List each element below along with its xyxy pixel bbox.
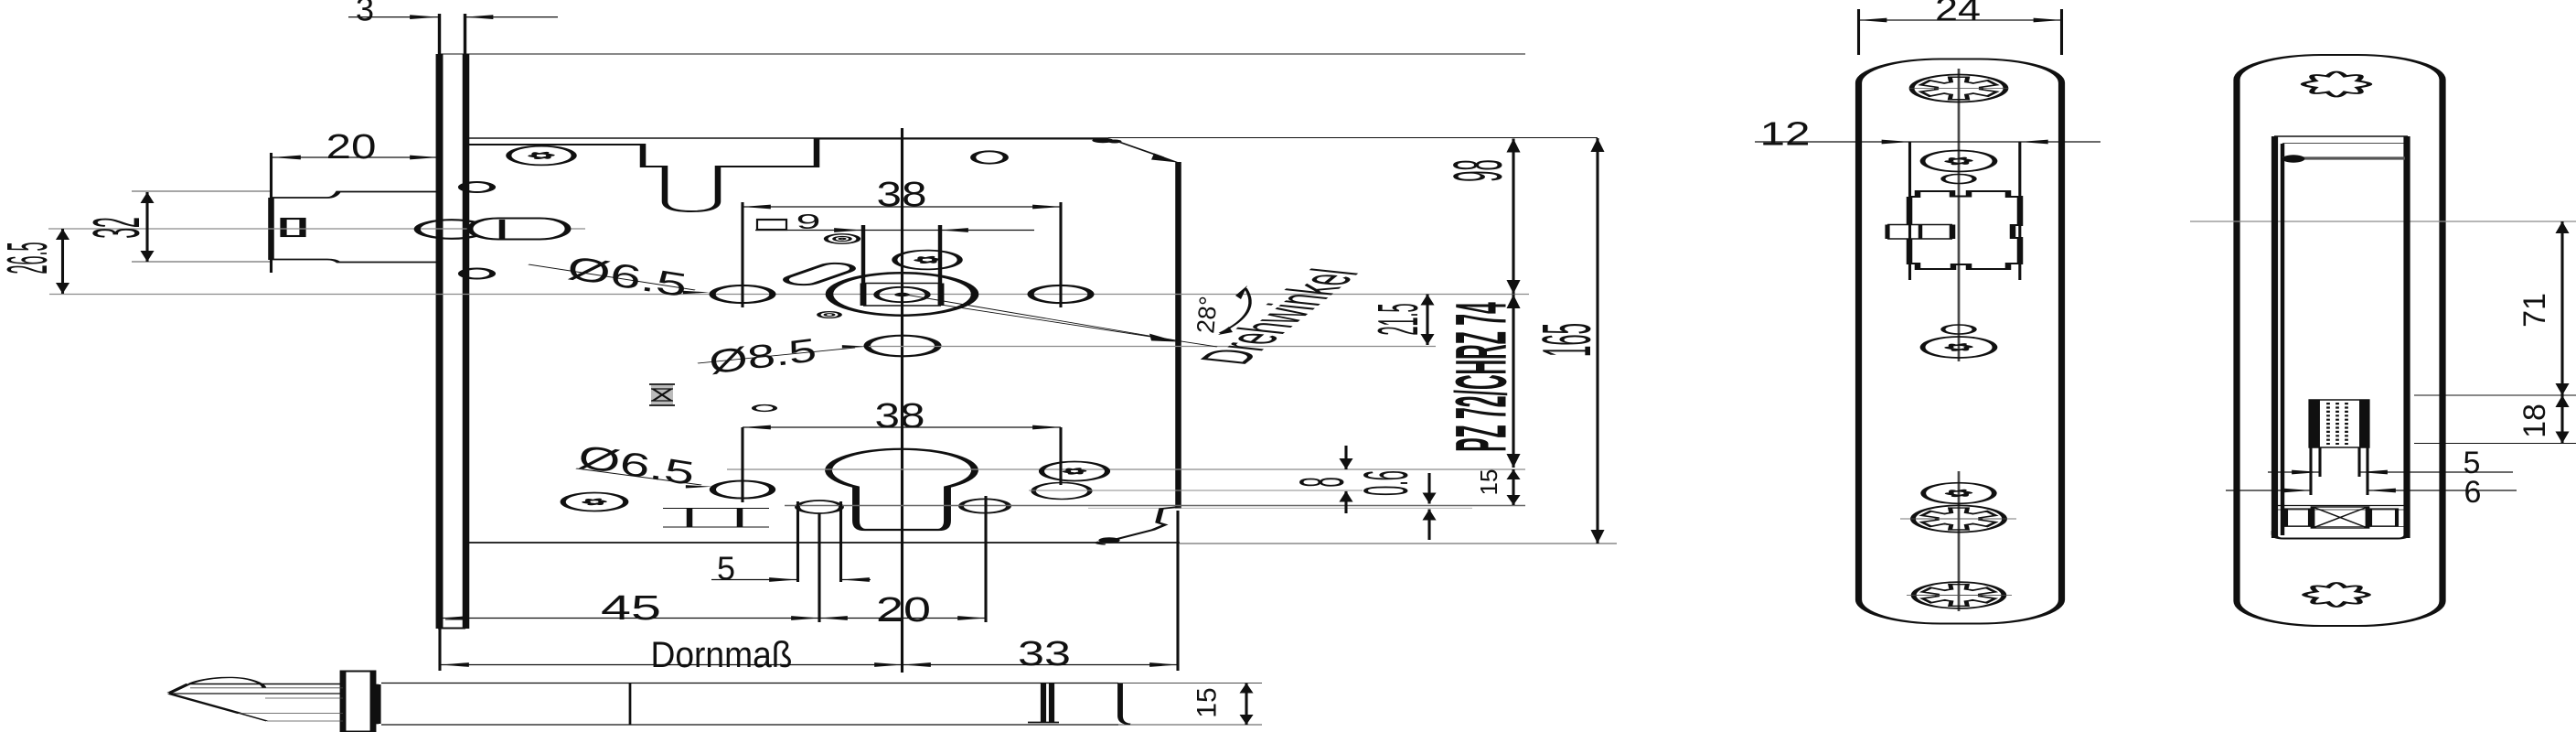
latch housing bar <box>501 220 503 239</box>
svg-text:8: 8 <box>1286 477 1356 487</box>
screw lower-left with star <box>563 493 626 511</box>
plan view bar end cap <box>1120 684 1130 725</box>
label square 9 <box>757 220 786 230</box>
leader line for dia 6.5 lower <box>576 468 701 485</box>
plan view mounting bracket <box>377 684 379 724</box>
svg-text:15: 15 <box>1192 687 1223 717</box>
handle follower outer circle <box>829 273 975 315</box>
plan view lock bar top edge <box>381 683 1118 684</box>
plan view joint line <box>629 684 631 725</box>
dimension 26.5 <box>61 229 63 294</box>
dimension 71 <box>2561 221 2563 395</box>
small rivet with rings upper <box>826 234 859 243</box>
faceplate 1 outline <box>1859 59 2062 624</box>
plan view faceplate block <box>343 672 373 732</box>
hole dia 8.5 below follower <box>867 336 938 357</box>
plate2 box bottom lines <box>2274 505 2408 507</box>
right plain hole <box>1033 483 1090 500</box>
svg-text:5: 5 <box>717 550 735 587</box>
svg-text:0.6: 0.6 <box>1350 470 1420 496</box>
svg-text:38: 38 <box>875 397 925 436</box>
tiny hole below bobbin <box>754 405 775 412</box>
latch bolt top edge <box>271 192 439 199</box>
plate1 top gear screw <box>1912 75 2006 102</box>
dimension 24 <box>1859 19 2062 21</box>
follower centerline horizontal <box>49 294 1529 296</box>
plate1 latch cutout castellated <box>1909 191 2020 269</box>
plate2 box hatched strip <box>2282 156 2405 159</box>
latch bolt bottom edge <box>271 260 439 263</box>
upper mounting hole right dia 6.5 <box>1031 285 1091 303</box>
latch stop pin <box>283 219 303 236</box>
latch bolt side view front face <box>270 153 272 198</box>
dimension 21.5 <box>1427 295 1428 346</box>
plate1 star screw upper <box>1923 151 1995 172</box>
plate2 adjuster left block <box>2286 509 2310 526</box>
svg-text:24: 24 <box>1935 0 1981 28</box>
lock case top thin edge line <box>469 137 1108 139</box>
dimension 5 plate2 <box>2268 471 2320 473</box>
euro profile cylinder hole <box>828 449 975 530</box>
follower center mark <box>894 293 909 296</box>
dimension 32 <box>146 192 148 262</box>
plate2 box right wall <box>2406 136 2408 538</box>
dimension 18 <box>2561 395 2563 444</box>
spring bobbin symbol <box>651 385 673 404</box>
centerline through dia 8.5 hole <box>869 346 1436 348</box>
lower hole right of cylinder <box>961 499 1009 512</box>
dimension 38 upper <box>743 206 1061 208</box>
small rivet below follower <box>818 312 839 318</box>
small hole top middle-right <box>973 151 1006 163</box>
dimension 6 plate2 <box>2226 490 2311 491</box>
lock case bottom edge <box>465 542 1180 544</box>
latch guide pin lower (behind faceplate) <box>461 269 492 279</box>
bottom-right auxiliary hook <box>1108 507 1178 542</box>
spring slot (angled stadium) <box>779 262 860 287</box>
svg-text:21.5: 21.5 <box>1366 303 1429 335</box>
top-right hook and pointer to case corner <box>1092 138 1113 143</box>
svg-text:3: 3 <box>356 0 374 28</box>
plate2 adjuster center with cross <box>2313 507 2368 528</box>
svg-text:PZ 72/CHRZ 74: PZ 72/CHRZ 74 <box>1441 302 1522 452</box>
plan view lock bar bottom edge <box>381 724 1118 726</box>
dimension 9 square (follower) <box>755 230 1034 231</box>
lock case top profile with castellation <box>469 139 1106 212</box>
plate1 star screw middle <box>1923 337 1995 358</box>
plate2 flower cutout top <box>2303 72 2369 97</box>
dimension 15 case bottom <box>1512 469 1514 505</box>
rotation angle 28 deg leader lines <box>905 295 1176 340</box>
plate2 box left wall <box>2273 136 2275 538</box>
latch centerline <box>48 228 585 230</box>
plate1 latch tongue <box>1887 224 1952 226</box>
centerline lower plain hole <box>1029 490 1363 491</box>
dimension 5 extension lines <box>796 501 798 582</box>
cylinder centerline horizontal <box>727 468 1525 470</box>
svg-text:Dornmaß: Dornmaß <box>651 635 793 675</box>
plate2 box top edge <box>2274 135 2408 137</box>
dimension 15 bar height <box>1245 684 1247 726</box>
top-left screw with star washer <box>508 146 573 166</box>
follower square spindle hole <box>862 284 864 307</box>
svg-text:165: 165 <box>1528 323 1605 357</box>
plate1 gear screw lower <box>1913 505 2004 532</box>
case top extension line to 165 dimension <box>1108 137 1598 139</box>
dimension 45 and 20 line <box>441 618 986 619</box>
svg-text:32: 32 <box>80 217 154 238</box>
plate2 box bottom cap <box>2274 531 2407 539</box>
follower inner circle <box>876 287 927 302</box>
guard bracket below cylinder <box>663 508 769 510</box>
rotation angle arc with arrows <box>1220 288 1250 333</box>
plate1 star screw lower <box>1923 483 1994 504</box>
plate2 handle centerline <box>2190 221 2576 222</box>
dimension PZ72/CHRZ74 <box>1512 295 1514 468</box>
faceplate 2 outline <box>2237 55 2442 626</box>
upper mounting hole left dia 6.5 <box>712 285 773 303</box>
dimension Dornmass and 33 line <box>441 664 1178 666</box>
extension lines for 32 dimension <box>132 190 272 192</box>
latch roller crossing faceplate <box>417 220 486 239</box>
dimension 20 (latch protrusion) <box>273 156 438 158</box>
svg-text:20: 20 <box>876 591 931 630</box>
plate2 adjuster right block <box>2370 509 2397 526</box>
faceplate top extension line <box>440 53 1525 55</box>
leader line for dia 6.5 upper <box>529 264 695 290</box>
svg-text:6: 6 <box>2464 475 2482 510</box>
svg-text:38: 38 <box>877 176 927 214</box>
plan view fixing lugs <box>1042 684 1044 723</box>
faceplate bottom cap <box>438 628 465 630</box>
dimension 12 <box>1755 141 2100 143</box>
leader line for dia 8.5 <box>698 348 855 363</box>
fixing screw hole dia 5 <box>797 501 841 513</box>
lower screws centerline <box>785 505 1525 507</box>
lock case right edge <box>1178 162 1180 509</box>
svg-text:71: 71 <box>2517 293 2552 328</box>
latch spring housing stadium <box>470 219 568 240</box>
svg-text:18: 18 <box>2517 404 2552 438</box>
svg-text:15: 15 <box>1475 469 1502 496</box>
right screw with star <box>1042 462 1107 481</box>
latch guide pin upper (behind faceplate) <box>461 182 492 192</box>
main vertical centerline <box>902 128 903 673</box>
screw above follower with star <box>894 251 959 270</box>
svg-text:9: 9 <box>796 210 821 233</box>
dimension 5 <box>711 579 797 581</box>
dimension 165 <box>1597 138 1598 544</box>
case inner bottom line (0.6 offset) <box>1088 507 1472 509</box>
dimension 98 <box>1512 139 1514 295</box>
dimension 8 <box>1345 446 1347 469</box>
svg-text:45: 45 <box>601 589 661 628</box>
svg-text:12: 12 <box>1760 115 1811 153</box>
svg-text:26.5: 26.5 <box>0 242 59 274</box>
dimension 38 lower <box>743 426 1061 428</box>
plan view latch bolt <box>169 684 188 694</box>
svg-text:28°: 28° <box>1192 295 1222 334</box>
plate1 small hole middle <box>1943 325 1974 334</box>
svg-text:98: 98 <box>1439 159 1516 181</box>
svg-text:33: 33 <box>1018 635 1071 673</box>
case bottom extension line to 165 dimension <box>1180 543 1617 544</box>
plate2 roller element <box>2311 400 2368 447</box>
plate2 flower cutout bottom <box>2304 583 2368 607</box>
faceplate back edge (side view) <box>464 14 465 54</box>
svg-text:20: 20 <box>326 128 377 167</box>
dimension 3 (faceplate thickness) <box>348 16 438 18</box>
plate1 small hole upper <box>1943 175 1974 184</box>
extension lines 18 <box>2414 394 2576 396</box>
dimension 0.6 <box>1428 473 1430 504</box>
plate1 gear screw bottom <box>1914 582 2004 608</box>
faceplate 1 centerline <box>1958 69 1960 361</box>
lower mounting hole left dia 6.5 <box>712 481 772 499</box>
faceplate front edge (side view) <box>439 14 441 54</box>
